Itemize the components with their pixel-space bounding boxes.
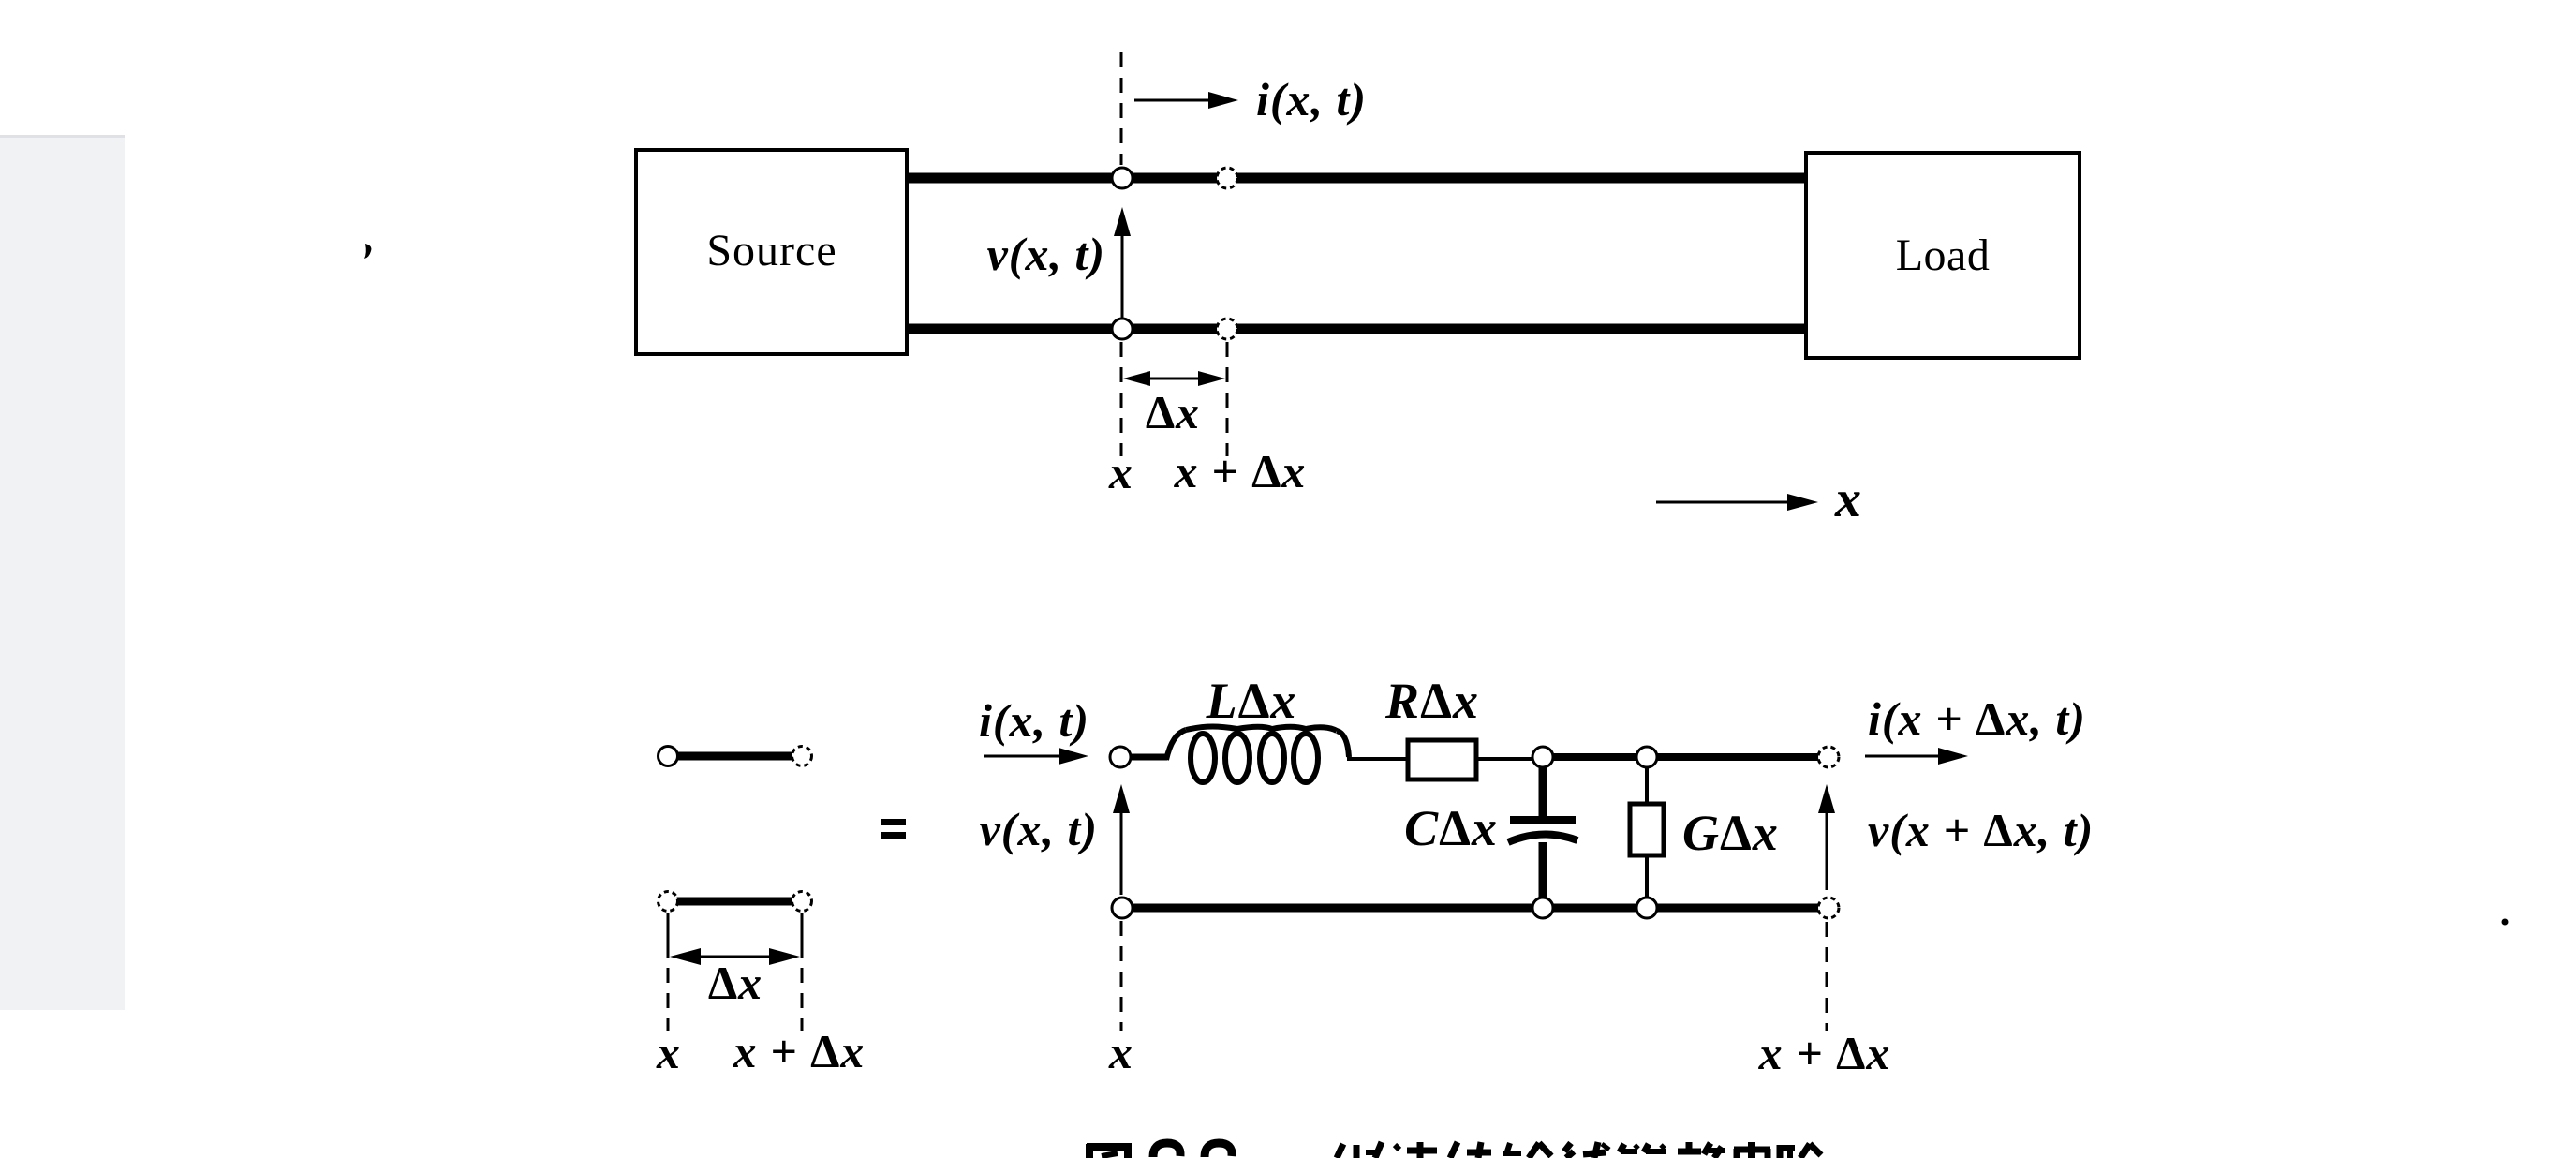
output voltage arrow v(x+dx, t) — [1818, 784, 2094, 890]
char 路 — [1777, 1145, 1784, 1158]
svg-text:x + Δx: x + Δx — [733, 1025, 866, 1077]
top wire junction A to junction B — [1543, 753, 1647, 761]
svg-text:CΔx: CΔx — [1404, 800, 1498, 856]
dashed drop at x+dx (circuit) — [1826, 922, 1828, 1031]
svg-text:Source: Source — [706, 226, 836, 275]
svg-text:v(x + Δx, t): v(x + Δx, t) — [1868, 804, 2094, 856]
bottom junction B — [1636, 898, 1657, 918]
digit 2 — [1153, 1143, 1180, 1157]
svg-text:i(x + Δx, t): i(x + Δx, t) — [1868, 692, 2086, 745]
svg-text:x + Δx: x + Δx — [1174, 445, 1307, 497]
svg-text:v(x, t): v(x, t) — [987, 228, 1105, 280]
junction A (top) — [1532, 747, 1553, 767]
svg-text:x: x — [1108, 1026, 1133, 1078]
char 传 — [1450, 1142, 1458, 1158]
stray ink speck bottom-right — [2502, 919, 2509, 926]
short line segment (top) — [659, 747, 812, 766]
dashed drop at x (circuit) — [1120, 921, 1123, 1031]
bottom return wire — [1122, 904, 1828, 913]
char 图 — [1086, 1144, 1093, 1158]
capacitor C dx — [1404, 766, 1577, 903]
output node (top right) — [1818, 747, 1839, 767]
drop line at x+dx (left symbol) — [801, 913, 804, 943]
figure caption "图 2-2 (clipped)" : top edges of bold caption glyphs — [1087, 1142, 1821, 1158]
wire inductor to resistor — [1347, 757, 1409, 761]
svg-text:GΔx: GΔx — [1682, 805, 1779, 861]
voltage arrow v(x,t) (circuit input) — [980, 784, 1130, 895]
left gutter strip — [0, 135, 125, 1010]
top conductor wire — [907, 173, 1806, 184]
svg-text:RΔx: RΔx — [1384, 673, 1479, 729]
bottom junction A — [1532, 898, 1553, 918]
dashed drop line at x+dx — [1226, 342, 1229, 456]
char 微 — [1337, 1144, 1343, 1158]
svg-text:x + Δx: x + Δx — [1758, 1027, 1891, 1079]
svg-text:Load: Load — [1896, 230, 1991, 280]
svg-text:i(x, t): i(x, t) — [979, 694, 1089, 747]
dashed section line at x (top) — [1120, 52, 1123, 165]
svg-text:x: x — [1108, 446, 1133, 498]
char 电 — [1734, 1149, 1740, 1158]
resistor R dx — [1384, 673, 1479, 779]
short line segment (bottom) — [659, 892, 812, 912]
char 线 — [1564, 1143, 1571, 1151]
wire node to inductor — [1131, 754, 1167, 761]
char 输 — [1503, 1151, 1521, 1156]
char 等 — [1620, 1144, 1624, 1152]
node circle at x+dx on bottom wire — [1217, 319, 1237, 339]
current arrow into network — [984, 748, 1088, 765]
svg-text:x: x — [1834, 470, 1862, 528]
input node (top left) — [1110, 747, 1131, 767]
node circle at x+dx on top wire — [1217, 168, 1237, 188]
stray ink speck top-left — [364, 244, 371, 259]
equals sign — [881, 819, 906, 839]
bottom left node — [1112, 898, 1133, 918]
delta-x dimension arrow — [1123, 371, 1225, 438]
svg-text:x: x — [656, 1026, 681, 1078]
conductance G dx — [1630, 766, 1779, 903]
node circle at x on top wire — [1112, 168, 1133, 188]
svg-text:Δx: Δx — [1146, 386, 1200, 438]
wire resistor to junction A — [1476, 757, 1543, 761]
inductor L dx — [1166, 673, 1349, 782]
node circle at x on bottom wire — [1112, 319, 1133, 339]
svg-text:Δx: Δx — [708, 957, 762, 1009]
x axis arrow — [1656, 470, 1862, 528]
bottom conductor wire — [907, 324, 1806, 334]
voltage arrow v(x,t) — [987, 207, 1131, 324]
char 效 — [1686, 1142, 1693, 1149]
dashed drop line at x — [1120, 342, 1123, 456]
Load box — [1806, 153, 2080, 358]
bottom right node — [1818, 898, 1839, 918]
current arrow i(x,t) — [1134, 73, 1367, 126]
svg-text:v(x, t): v(x, t) — [980, 803, 1098, 855]
top wire junction B to output node — [1647, 753, 1828, 761]
drop line at x (left symbol) — [667, 913, 670, 943]
svg-text:LΔx: LΔx — [1206, 673, 1297, 729]
char 波 — [1395, 1145, 1399, 1150]
delta-x dimension arrow (left symbol) — [670, 948, 800, 1009]
svg-text:i(x, t): i(x, t) — [1256, 73, 1367, 126]
output current label i(x+dx, t) — [1865, 692, 2086, 765]
Source box — [636, 150, 907, 354]
digit 2 — [1205, 1143, 1232, 1157]
junction B (top) — [1636, 747, 1657, 767]
